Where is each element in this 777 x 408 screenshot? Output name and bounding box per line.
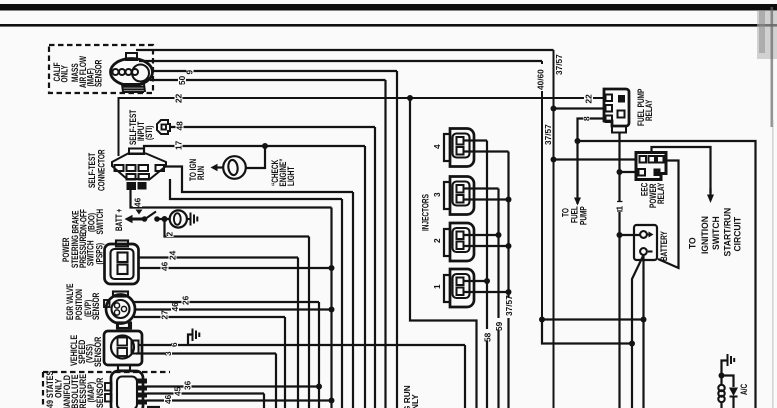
MAF sensor connector symbol — [111, 53, 153, 86]
svg-text:22: 22 — [584, 94, 594, 104]
label 37/57 injectors — [505, 298, 514, 318]
MAP sensor connector symbol — [105, 371, 147, 408]
label 59 — [495, 318, 504, 330]
svg-text:4: 4 — [432, 144, 442, 149]
wire EEC top pin to ignition arrow — [652, 147, 711, 193]
svg-text:BATTERY: BATTERY — [659, 231, 669, 261]
label 1 — [616, 201, 624, 212]
node 46 bus / map — [329, 398, 335, 404]
wire 46 from EVP — [134, 308, 332, 310]
bus wire 26 down — [318, 302, 320, 408]
label 36 — [184, 382, 192, 391]
wire 1 from relay tab down — [618, 133, 620, 408]
svg-text:6: 6 — [169, 342, 179, 347]
label 58 — [483, 329, 492, 341]
label 46 with down arrow — [133, 199, 142, 207]
svg-text:RUN: RUN — [196, 166, 206, 180]
svg-text:3: 3 — [432, 192, 442, 197]
wire 48 from STI — [170, 126, 375, 128]
wire to EEC relay lower pin — [620, 171, 638, 173]
svg-text:46: 46 — [170, 302, 180, 312]
MAP label MANIFOLD ABSOLUTE PRESSURE (MAP) SENSOR — [62, 373, 105, 408]
svg-text:2: 2 — [432, 238, 442, 243]
bus wire 48 down — [374, 127, 376, 408]
svg-text:(STI): (STI) — [144, 125, 154, 140]
BOO switch terminal left — [142, 216, 148, 222]
svg-text:SENSOR: SENSOR — [93, 337, 103, 367]
wire 6 turn down — [464, 345, 466, 408]
svg-text:24: 24 — [168, 250, 178, 260]
bus wire 45 down — [263, 394, 265, 408]
MAP sensor dashed box (49 STATES ONLY) — [43, 372, 170, 408]
svg-text:TO: TO — [687, 237, 697, 249]
label 22 left — [175, 94, 183, 103]
label 8 — [583, 114, 590, 123]
label 40/60 — [538, 64, 547, 91]
svg-text:INJECTORS: INJECTORS — [420, 194, 430, 231]
svg-text:LIGHT: LIGHT — [286, 166, 296, 186]
wire 2 from BOO junction — [165, 219, 310, 237]
label 9 — [187, 67, 194, 76]
BOO switch terminal right — [154, 216, 160, 222]
svg-text:A/C: A/C — [739, 384, 749, 395]
injector 3 — [444, 177, 474, 215]
wire 6 from VSS — [139, 344, 466, 346]
node ground bus right — [641, 317, 647, 323]
node inj2 bottom to 37/57 — [506, 243, 512, 249]
node 46 bus / psps — [329, 265, 335, 271]
MAF sensor label CALIF ONLY — [52, 62, 70, 82]
A/C clutch coil — [720, 376, 722, 386]
TO IGN RUN label — [188, 159, 206, 181]
EEC POWER RELAY connector — [636, 153, 666, 180]
SELF-TEST INPUT (STI) label — [128, 110, 154, 145]
label 46 psps — [161, 263, 169, 272]
wire battery plus — [620, 234, 641, 236]
svg-text:58: 58 — [483, 332, 493, 342]
riser 40/60 — [541, 61, 543, 343]
wire map pin4 stub — [147, 406, 160, 408]
label 26 — [182, 297, 190, 306]
wire 3 from VSS — [136, 352, 276, 354]
svg-text:9: 9 — [185, 70, 195, 75]
wire 37/57 to EEC relay pin — [554, 158, 638, 160]
label 22 right — [584, 91, 593, 101]
injector 3 bottom pin wire — [464, 198, 509, 200]
ground bus horizontal lower — [542, 320, 632, 344]
BATT+ arrow — [133, 218, 144, 221]
wire 46 from MAP — [147, 399, 332, 401]
self-test connector symbol — [112, 149, 166, 190]
BRAKE ON-OFF (BOO) SWITCH label — [70, 209, 105, 235]
wire 45 from MAP — [147, 392, 264, 394]
svg-text:SENSOR: SENSOR — [91, 292, 101, 320]
SELF-TEST CONNECTOR label — [87, 149, 107, 191]
svg-text:1: 1 — [615, 206, 625, 211]
svg-text:IGNITION: IGNITION — [700, 216, 710, 254]
svg-text:1: 1 — [432, 284, 442, 289]
label 24 — [169, 253, 177, 262]
injector 4 top pin wire — [464, 139, 488, 141]
node wire36 to vref line — [316, 384, 322, 390]
svg-text:27: 27 — [160, 310, 170, 320]
svg-text:ONLY: ONLY — [59, 64, 69, 82]
wire 36 from MAP — [147, 385, 319, 387]
injector 3 top pin wire — [464, 187, 499, 189]
node inj3 bottom to 37/57 — [506, 197, 512, 203]
STI connector symbol — [157, 120, 170, 134]
wire 50 from MAF — [150, 79, 386, 81]
node wire1 to EEC relay — [617, 169, 623, 175]
label 27 — [161, 312, 169, 321]
battery minus wire B — [632, 255, 644, 408]
svg-text:46: 46 — [133, 197, 143, 207]
wire from self-test right pin (y192 route) — [164, 167, 353, 193]
A/C clutch ground — [722, 361, 728, 376]
wire 46 from PSPS — [139, 267, 332, 269]
wire 37/57 from MAF to riser — [136, 49, 554, 51]
node 37/57 to EEC relay — [551, 157, 557, 163]
svg-text:3: 3 — [163, 351, 173, 356]
svg-text:50: 50 — [177, 75, 187, 85]
svg-text:46: 46 — [160, 261, 170, 271]
label 45 — [174, 389, 182, 398]
A/C diode branch — [722, 376, 734, 388]
wire relay pin 2 — [554, 107, 605, 109]
node inj2 top to 59 — [496, 232, 502, 238]
svg-text:SWITCH: SWITCH — [711, 216, 721, 250]
bus wire 46 down — [330, 208, 332, 408]
injector 2 — [444, 223, 474, 261]
MAF sensor label MASS AIR FLOW (MAF) SENSOR — [70, 56, 104, 88]
wire 40/60 from MAF to riser — [139, 60, 542, 62]
wire EEC right pin to battery — [658, 161, 679, 269]
bus wire 59 down — [497, 189, 499, 408]
injector 4 bottom pin wire — [464, 150, 509, 152]
CHECK ENGINE LIGHT bulb — [223, 156, 246, 179]
battery + arrow — [647, 234, 649, 236]
bus wire 9 down — [396, 71, 398, 408]
bus wire from self-test right pin down — [352, 192, 354, 408]
svg-text:46: 46 — [163, 394, 173, 404]
PSPS connector symbol — [105, 241, 139, 285]
label 2 — [167, 229, 174, 237]
svg-text:40/60: 40/60 — [536, 69, 546, 90]
svg-text:SENSOR: SENSOR — [93, 59, 103, 87]
wire 26 from EVP — [134, 301, 319, 303]
svg-text:RELAY: RELAY — [644, 99, 654, 121]
top border bar — [0, 4, 777, 11]
node inj1 top to 58 — [484, 278, 490, 284]
TO IGN RUN arrow from bulb — [217, 166, 223, 168]
bus wire 37/57 injectors down — [507, 152, 509, 408]
battery minus sign — [648, 250, 653, 252]
label 46 map — [164, 396, 172, 405]
svg-text:2: 2 — [165, 232, 175, 237]
EGR VALVE POSITION (EVP) SENSOR label — [65, 284, 101, 320]
svg-text:BATT +: BATT + — [114, 208, 124, 231]
right edge scan smudge — [757, 11, 777, 59]
wire 17 from self-test connector tab — [144, 146, 365, 153]
svg-text:17: 17 — [174, 140, 184, 150]
bus wire 50 down — [384, 80, 386, 408]
svg-text:37/57: 37/57 — [543, 124, 553, 145]
wire 24 from PSPS — [139, 256, 299, 258]
MAP label 49 STATES ONLY — [45, 370, 63, 408]
label 48 — [176, 123, 184, 132]
node inj1 bottom to 37/57 — [506, 289, 512, 295]
BOO switch blade — [147, 212, 157, 219]
bus wire 27 down — [284, 317, 286, 408]
wire from switch to junction — [157, 218, 169, 220]
bus wire 17 down — [364, 146, 366, 408]
svg-text:CONNECTOR: CONNECTOR — [96, 149, 106, 191]
node 46 bus / evp — [329, 307, 335, 313]
svg-text:37/57: 37/57 — [504, 295, 514, 316]
battery minus wire A — [642, 254, 644, 408]
node BOO junction — [162, 216, 168, 222]
wire 9 from MAF — [152, 70, 397, 72]
bus wire 58 down — [486, 141, 488, 408]
VEHICLE SPEED (VSS) SENSOR label — [69, 334, 103, 367]
TO FUEL PUMP arrow — [574, 198, 581, 206]
injector 2 bottom pin wire — [464, 245, 509, 247]
FUEL PUMP RELAY connector — [604, 89, 629, 133]
injector 2 top pin wire — [464, 234, 499, 236]
bus wire 2 down — [308, 237, 310, 408]
svg-text:RELAY: RELAY — [656, 182, 666, 204]
TO FUEL PUMP label — [560, 206, 588, 225]
svg-text:59: 59 — [494, 321, 504, 331]
node ground bus left — [539, 317, 545, 323]
VSS sensor connector symbol — [104, 323, 142, 371]
EVP sensor connector symbol — [104, 292, 135, 329]
label 46 evp — [171, 305, 179, 314]
svg-text:PUMP: PUMP — [578, 206, 588, 225]
svg-text:26: 26 — [181, 295, 191, 305]
svg-text:CIRCUIT: CIRCUIT — [732, 216, 742, 251]
svg-text:36: 36 — [183, 380, 193, 390]
svg-text:45: 45 — [173, 386, 183, 396]
wire from self-test bottom right (y199 route) — [170, 179, 342, 199]
injector 1 bottom pin wire — [464, 291, 509, 293]
bus wire 3 down — [275, 354, 277, 408]
MAF sensor dashed box (CALIF ONLY) — [49, 45, 153, 93]
node pin8 wire / ignition feed — [575, 138, 581, 144]
MAF hatched base — [122, 84, 145, 92]
svg-text:37/57: 37/57 — [554, 54, 564, 75]
wire to far right down — [578, 141, 756, 408]
ground branch on wire 6 — [188, 335, 193, 346]
riser 37/57 top — [553, 50, 555, 408]
ground at brake light — [186, 213, 197, 226]
svg-text:SWITCH: SWITCH — [95, 209, 105, 235]
svg-text:NLY: NLY — [410, 394, 420, 408]
BATTERY box — [634, 225, 657, 260]
wire 22 riser from self-test connector — [119, 98, 605, 156]
label 50 — [178, 75, 186, 85]
injector 1 — [444, 269, 474, 307]
node wire1 to battery — [617, 232, 623, 238]
label 3 — [165, 349, 172, 358]
ground bus horizontal upper — [542, 318, 644, 320]
bus wire 24 down — [297, 258, 299, 408]
node 37/57 to fuel pump relay pin — [551, 106, 557, 112]
CHECK ENGINE LIGHT label — [270, 158, 296, 186]
node: wire 17 to check engine light — [262, 143, 268, 149]
EEC POWER RELAY label — [639, 182, 666, 208]
top border line — [0, 24, 777, 27]
wire 46 from self-test bottom pin — [131, 189, 332, 208]
svg-text:48: 48 — [175, 121, 185, 131]
node ground bus lower — [629, 341, 635, 347]
brake light bulb — [170, 210, 187, 227]
svg-text:START/RUN: START/RUN — [722, 208, 732, 257]
injector 1 top pin wire — [464, 280, 488, 282]
STO branch wire down and right — [410, 98, 477, 408]
bus wire from self-test lower right down — [341, 199, 343, 408]
svg-text:8: 8 — [582, 116, 592, 121]
diode A/C — [729, 388, 738, 397]
wire 8 to fuel pump relay — [578, 119, 605, 205]
FUEL PUMP RELAY label — [636, 89, 654, 126]
TO IGNITION arrow — [707, 195, 714, 204]
injector 4 — [444, 129, 474, 167]
node A/C branch — [719, 373, 725, 379]
label 6 — [171, 340, 178, 349]
svg-text:22: 22 — [174, 93, 184, 103]
wire 27 from EVP — [134, 316, 285, 318]
node wire 22 / STO branch — [407, 95, 413, 101]
POWER STEERING PRESSURE SWITCH (PSPS) label — [61, 232, 105, 268]
label 17 — [175, 142, 183, 151]
TO IGNITION SWITCH START/RUN CIRCUIT label — [687, 208, 742, 257]
wire from node down to check engine light — [247, 146, 266, 168]
svg-text:SENSOR: SENSOR — [95, 378, 105, 408]
